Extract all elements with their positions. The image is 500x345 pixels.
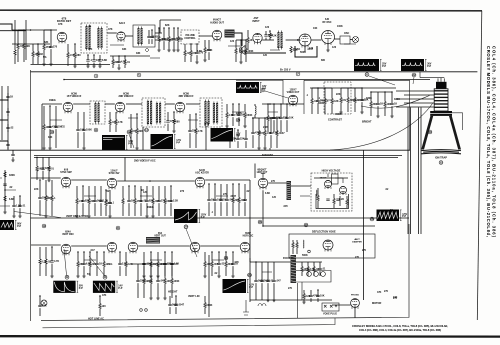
pointer from callout 31 xyxy=(369,76,395,85)
resistor R76 xyxy=(346,200,348,205)
wire xyxy=(238,104,240,114)
callout circle 24 xyxy=(248,273,252,277)
wire xyxy=(119,266,121,276)
wire xyxy=(324,104,326,115)
ground xyxy=(12,216,16,218)
svg-text:6U8: 6U8 xyxy=(64,170,69,172)
wire xyxy=(137,283,139,298)
svg-text:6S4A: 6S4A xyxy=(65,230,71,233)
junction xyxy=(77,251,79,253)
svg-text:10K: 10K xyxy=(289,116,294,119)
boost wire xyxy=(263,225,375,227)
left wire xyxy=(14,20,16,50)
ground xyxy=(48,148,52,150)
wire xyxy=(157,267,159,277)
stub wire xyxy=(150,259,162,261)
junction xyxy=(103,251,105,253)
ground xyxy=(86,66,90,68)
junction xyxy=(150,251,152,253)
ground xyxy=(302,302,306,304)
wire xyxy=(220,202,222,216)
tube V21 xyxy=(323,240,333,252)
svg-text:.047: .047 xyxy=(90,249,95,252)
junction xyxy=(149,180,151,182)
wire xyxy=(273,104,275,117)
tube V19 xyxy=(325,181,332,190)
wire xyxy=(244,202,246,216)
wire xyxy=(7,114,9,116)
wire xyxy=(163,28,165,38)
capacitor C72 xyxy=(272,280,275,281)
wire xyxy=(167,112,169,121)
boost feed wire xyxy=(363,150,365,300)
CRT socket wire xyxy=(404,102,434,104)
transformer T2a windings xyxy=(137,28,139,44)
wire xyxy=(244,184,246,199)
wire xyxy=(254,164,256,179)
wire xyxy=(7,147,9,149)
callout circle 26 xyxy=(258,220,262,224)
wire xyxy=(205,179,250,181)
svg-text:B+ 255 V: B+ 255 V xyxy=(280,69,291,72)
left edge wire 2 xyxy=(1,86,3,140)
resistor R59 xyxy=(77,262,79,267)
wire xyxy=(244,104,246,113)
capacitor C11 xyxy=(195,52,198,53)
svg-text:47K: 47K xyxy=(102,294,107,297)
wire xyxy=(204,40,206,48)
wire xyxy=(88,204,90,217)
svg-text:560K: 560K xyxy=(247,114,253,117)
svg-text:P-P: P-P xyxy=(402,215,406,218)
stub wire xyxy=(268,111,278,113)
capacitor C55 xyxy=(50,261,53,262)
wire xyxy=(265,31,267,35)
ground xyxy=(3,212,7,214)
svg-text:680: 680 xyxy=(321,59,326,62)
svg-text:1MEG: 1MEG xyxy=(106,263,113,266)
junction xyxy=(225,251,227,253)
output transformer T3 xyxy=(225,30,235,38)
capacitor C23 xyxy=(236,138,239,139)
wire xyxy=(94,203,96,216)
junction xyxy=(163,27,165,29)
wire xyxy=(280,120,282,132)
wire xyxy=(268,182,286,184)
wire xyxy=(255,283,257,300)
wire xyxy=(286,39,299,41)
waveform photo WB4 xyxy=(102,135,125,150)
tube V4 xyxy=(299,34,311,48)
svg-text:4.7K: 4.7K xyxy=(54,260,59,263)
wire xyxy=(170,203,172,216)
CRT funnel xyxy=(421,116,433,150)
wire xyxy=(7,130,9,132)
wire xyxy=(245,54,247,63)
resistor R14 xyxy=(32,52,34,57)
wire xyxy=(247,43,249,51)
svg-text:1K: 1K xyxy=(394,102,397,105)
wire xyxy=(150,252,152,262)
wire xyxy=(168,42,170,51)
svg-text:6.8K: 6.8K xyxy=(197,50,202,53)
transformer T4 windings xyxy=(94,103,96,122)
wire xyxy=(245,130,247,138)
resistor R32 xyxy=(36,166,38,171)
junction xyxy=(23,29,25,31)
wire xyxy=(171,284,173,299)
stub wire xyxy=(188,119,198,121)
svg-text:680: 680 xyxy=(176,120,181,123)
wire xyxy=(151,30,153,36)
wire xyxy=(175,307,177,314)
wire xyxy=(254,104,256,106)
svg-text:P-P: P-P xyxy=(118,287,122,290)
capacitor C78 xyxy=(18,205,21,206)
capacitor C73 xyxy=(318,268,321,269)
HV top cap lead xyxy=(328,174,343,184)
wire xyxy=(96,252,98,263)
wire xyxy=(269,38,271,40)
wire xyxy=(151,39,153,44)
tube V15 xyxy=(128,242,138,253)
wire xyxy=(384,107,386,117)
waveform photo WB8 xyxy=(174,209,198,223)
ground xyxy=(75,216,79,218)
wire xyxy=(163,41,165,50)
waveform photo WB12 xyxy=(377,210,400,222)
AC interlock xyxy=(243,300,249,315)
ground xyxy=(117,68,121,70)
wire xyxy=(31,244,61,246)
waveform photo WB2 xyxy=(354,59,379,71)
wire xyxy=(347,88,349,98)
ground xyxy=(151,216,155,218)
terminal circle xyxy=(140,309,143,312)
stub wire xyxy=(320,99,332,101)
transformer T1b leads xyxy=(98,27,101,50)
resistor R75 xyxy=(333,199,335,204)
wire xyxy=(143,252,145,263)
wire xyxy=(19,196,21,205)
junction xyxy=(39,295,41,297)
wire xyxy=(51,247,53,261)
wire xyxy=(255,262,257,280)
ground xyxy=(47,180,51,182)
capacitor C16 xyxy=(76,129,79,130)
callout circle 22 xyxy=(65,275,69,279)
capacitor C22 xyxy=(228,138,231,139)
capacitor C34 xyxy=(316,100,319,101)
svg-text:AGC KEYER: AGC KEYER xyxy=(195,172,209,175)
resistor R33 xyxy=(48,166,50,171)
svg-text:120: 120 xyxy=(143,191,148,194)
ground xyxy=(339,112,343,114)
capacitor C50 xyxy=(207,199,210,200)
wire xyxy=(49,129,51,148)
wire xyxy=(261,262,263,280)
svg-text:VERT LIN: VERT LIN xyxy=(188,295,200,298)
wire xyxy=(37,57,39,65)
svg-text:.005: .005 xyxy=(283,205,288,208)
wire xyxy=(94,186,96,200)
top cap lead V18 xyxy=(261,173,265,178)
wire xyxy=(164,252,166,263)
callout circle 21 xyxy=(116,226,120,230)
wire xyxy=(189,114,191,130)
wire xyxy=(88,186,90,199)
wire xyxy=(164,266,166,276)
tube V1 xyxy=(57,32,67,43)
svg-text:SYNC SEP: SYNC SEP xyxy=(60,172,72,174)
yoke coil xyxy=(303,240,304,248)
capacitor C13 xyxy=(293,49,296,50)
ground xyxy=(376,116,380,118)
svg-text:DEFLECTION YOKE: DEFLECTION YOKE xyxy=(312,231,336,234)
wire xyxy=(204,308,206,315)
capacitor C20 xyxy=(231,114,234,115)
stub wire xyxy=(344,43,356,45)
resistor R65 xyxy=(204,262,206,267)
capacitor C38 xyxy=(251,132,254,133)
svg-text:COL4 (Ch. 386), COL4, COL4a (C: COL4 (Ch. 386), COL4, COL4a (Ch. 387), B… xyxy=(492,46,497,238)
rail wire xyxy=(341,87,362,89)
CRT socket wire xyxy=(404,94,434,96)
capacitor C37 xyxy=(390,103,393,104)
wire xyxy=(244,118,246,127)
ground xyxy=(167,50,171,52)
callout circle 28 xyxy=(370,217,374,221)
wire xyxy=(125,252,127,262)
wire xyxy=(83,266,85,276)
svg-text:120: 120 xyxy=(272,196,277,199)
wire xyxy=(232,266,234,276)
svg-text:33K: 33K xyxy=(122,48,127,51)
wire xyxy=(269,148,271,150)
junction xyxy=(30,29,32,31)
junction xyxy=(119,251,121,253)
resistor R63 xyxy=(150,262,152,267)
wire xyxy=(13,208,15,216)
wire xyxy=(370,107,372,117)
tube V16 xyxy=(190,242,200,253)
resistor R34 xyxy=(267,116,269,121)
capacitor C9 xyxy=(98,60,101,61)
wire xyxy=(103,252,105,262)
wire xyxy=(74,58,76,67)
p-p dimension for WB11 xyxy=(247,279,249,292)
capacitor C7 xyxy=(86,60,89,61)
wire xyxy=(67,58,69,67)
capacitor C26 xyxy=(11,154,14,155)
wire xyxy=(313,272,315,277)
wire xyxy=(134,186,136,199)
ground xyxy=(225,126,229,128)
callout circle 23 xyxy=(103,275,107,279)
wire xyxy=(32,44,34,52)
wire xyxy=(346,205,348,209)
junction xyxy=(164,251,166,253)
svg-text:330K: 330K xyxy=(394,98,400,101)
deflection yoke box xyxy=(289,234,375,258)
ground xyxy=(326,50,330,52)
capacitor C75 xyxy=(316,295,319,296)
wire xyxy=(125,35,133,37)
ground xyxy=(360,112,364,114)
stub wire xyxy=(140,195,152,197)
wire xyxy=(160,19,181,21)
wire xyxy=(99,309,101,317)
wire xyxy=(167,124,169,131)
svg-text:33K: 33K xyxy=(48,136,53,139)
resistor R44 xyxy=(264,131,266,136)
wire xyxy=(264,118,266,131)
resistor R47 xyxy=(51,196,53,201)
stub wire xyxy=(150,57,160,59)
resistor R57 xyxy=(39,259,41,264)
junction xyxy=(240,39,242,41)
capacitor C8 xyxy=(92,60,95,61)
lead curve to CRT cathode xyxy=(330,104,433,151)
wire xyxy=(93,55,95,60)
resistor R13 xyxy=(14,50,16,55)
wire xyxy=(31,177,61,179)
svg-text:CONTROL: CONTROL xyxy=(184,38,196,40)
wire xyxy=(211,252,213,262)
wire xyxy=(296,248,298,255)
wire xyxy=(130,114,132,129)
ground xyxy=(156,298,160,300)
capacitor C67 xyxy=(136,280,139,281)
wire xyxy=(237,130,239,138)
svg-text:P-P: P-P xyxy=(128,142,132,145)
ground xyxy=(49,64,53,66)
resistor R67 xyxy=(225,262,227,267)
transformer T1b windings xyxy=(97,28,99,48)
wire xyxy=(317,103,319,114)
capacitor C43 xyxy=(99,200,102,201)
peaking coil L2 xyxy=(255,106,256,115)
wire xyxy=(152,204,154,217)
wire xyxy=(238,184,240,198)
resistor R30 xyxy=(226,113,228,118)
wire xyxy=(119,252,121,263)
junction xyxy=(36,157,38,159)
capacitor C21 xyxy=(237,114,240,115)
wire xyxy=(290,46,292,47)
wire xyxy=(252,118,254,132)
wire xyxy=(48,171,50,180)
wire xyxy=(301,272,303,277)
wire xyxy=(134,204,136,217)
wire xyxy=(332,304,351,306)
capacitor C35 xyxy=(360,99,363,100)
wire xyxy=(122,186,124,199)
p-p dimension for WB5 xyxy=(174,134,176,148)
wire xyxy=(232,104,234,114)
junction xyxy=(105,189,107,191)
junction xyxy=(252,117,254,119)
transformer T6 leads xyxy=(205,100,208,126)
svg-text:47K: 47K xyxy=(377,291,382,294)
tube V3 xyxy=(253,33,262,44)
wire xyxy=(340,88,342,98)
HV filter cap xyxy=(326,199,339,200)
resistor R17 xyxy=(124,60,126,65)
svg-text:47K: 47K xyxy=(58,23,63,26)
wire xyxy=(99,55,101,60)
wire xyxy=(125,267,127,277)
wire xyxy=(276,136,278,149)
HV cage inner loop wire xyxy=(316,194,349,209)
stub wire xyxy=(270,49,280,51)
wire xyxy=(107,32,117,34)
junction xyxy=(286,103,288,105)
junction xyxy=(39,179,41,181)
callout circle 14 xyxy=(205,123,209,127)
wire xyxy=(148,39,150,44)
wire xyxy=(170,186,172,200)
wire xyxy=(39,200,41,216)
diamond test point xyxy=(145,48,149,52)
ground xyxy=(50,276,54,278)
wire xyxy=(103,267,105,277)
wire xyxy=(204,252,206,262)
transformer T5 windings xyxy=(147,101,149,124)
wire xyxy=(43,30,45,45)
junction xyxy=(218,251,220,253)
wire xyxy=(150,267,152,277)
wire xyxy=(294,46,296,49)
ground xyxy=(390,116,394,118)
resistor R72 xyxy=(164,279,166,284)
capacitor C2 xyxy=(150,36,153,37)
wire xyxy=(261,283,263,300)
wire xyxy=(324,88,326,99)
ground xyxy=(73,66,77,68)
wire xyxy=(148,30,150,36)
waveform photo WB10 xyxy=(93,281,115,293)
audio wire 2 xyxy=(110,55,150,57)
left wire 2 xyxy=(25,20,27,60)
audio wire xyxy=(12,29,57,31)
junction xyxy=(171,263,173,265)
wire xyxy=(105,190,107,201)
ground xyxy=(266,300,270,302)
svg-text:2ND VIDEO IF AGC: 2ND VIDEO IF AGC xyxy=(134,160,156,163)
ground xyxy=(257,148,261,150)
wire xyxy=(292,240,294,243)
svg-text:1ST VIDEO IF: 1ST VIDEO IF xyxy=(67,96,82,98)
ground xyxy=(272,300,276,302)
svg-text:270: 270 xyxy=(288,287,293,290)
waveform photo WB7 xyxy=(0,220,14,230)
svg-text:100K: 100K xyxy=(86,128,92,131)
svg-text:270: 270 xyxy=(180,190,185,193)
wire xyxy=(45,180,47,196)
svg-text:VIDEO OUT: VIDEO OUT xyxy=(287,92,300,94)
wire xyxy=(226,184,228,199)
wire xyxy=(226,202,228,216)
capacitor C5 xyxy=(172,38,175,39)
capacitor C76 xyxy=(3,184,6,185)
wire xyxy=(317,88,319,100)
wire xyxy=(49,106,51,126)
svg-text:560K: 560K xyxy=(300,51,306,54)
wire xyxy=(128,186,130,200)
wire xyxy=(12,43,50,45)
CRT socket wire xyxy=(396,90,434,92)
